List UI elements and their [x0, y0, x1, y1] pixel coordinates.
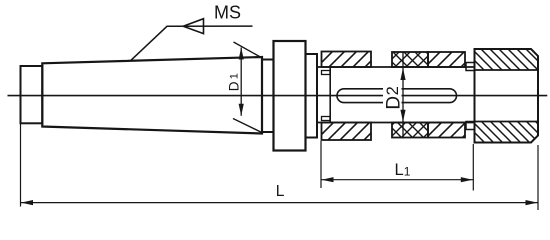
spacer ring R3 top band	[428, 52, 465, 67]
svg-text:L1: L1	[395, 161, 411, 179]
svg-text:D: D	[226, 81, 241, 91]
taper shank (Morse taper)	[42, 57, 262, 134]
D2 dimension line	[402, 52, 404, 139]
nut top band hatch	[475, 49, 539, 70]
spacer ring R2 top band	[392, 52, 428, 67]
neck right of flange	[306, 54, 318, 138]
svg-text:1: 1	[228, 73, 240, 79]
L dimension line	[21, 202, 539, 204]
svg-text:MS: MS	[214, 2, 241, 22]
spacer ring R1 bottom band	[322, 123, 372, 141]
white-out for D2 text	[383, 84, 402, 108]
svg-text:D: D	[383, 96, 404, 110]
tang (taper shank end)	[21, 66, 43, 123]
D1 dimension line	[240, 48, 242, 116]
L extension line right	[537, 145, 539, 210]
centerline	[8, 95, 548, 97]
arbor shaft surface line top	[317, 66, 475, 68]
shaft undercut step upper	[322, 71, 331, 75]
spacer ring R1 top band	[322, 52, 372, 68]
shaft undercut step lower	[322, 117, 331, 121]
washer step before nut upper	[466, 63, 475, 71]
svg-text:2: 2	[384, 86, 402, 95]
D1 dimension oblique extension ticks	[233, 42, 263, 133]
taper symbol open arrow	[183, 19, 203, 34]
spacer ring R3 bottom band	[428, 123, 465, 138]
L1 dimension line	[321, 179, 473, 181]
keyway slot	[337, 89, 457, 103]
nut bore lines	[475, 69, 539, 71]
washer step before nut lower	[466, 122, 475, 130]
neck left of flange	[262, 60, 274, 133]
shaft shoulder	[329, 67, 331, 123]
nut bottom band hatch	[475, 122, 539, 143]
arbor nut outline	[475, 49, 539, 143]
flange	[274, 41, 306, 151]
MS leader line	[130, 26, 253, 61]
L1 extension line right	[472, 144, 474, 191]
L extension line left	[20, 124, 22, 207]
L1 extension line left	[320, 141, 322, 188]
arbor shaft surface line bottom	[317, 122, 475, 124]
svg-text:L: L	[276, 183, 285, 200]
spacer ring R2 bottom band	[392, 123, 428, 138]
